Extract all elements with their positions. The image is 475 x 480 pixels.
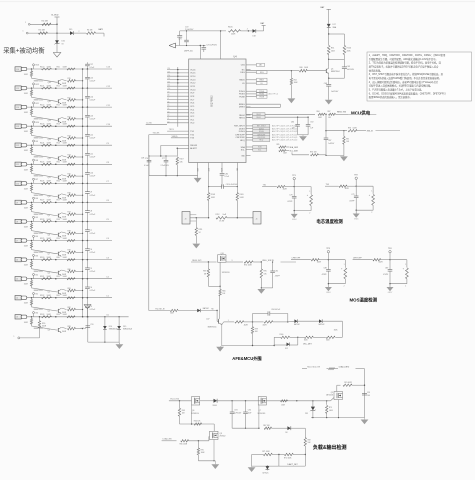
svg-text:B4: B4 bbox=[36, 236, 38, 238]
pin stub BAT bbox=[220, 31, 222, 59]
node B- bbox=[20, 337, 40, 339]
svg-text:TP1: TP1 bbox=[292, 175, 295, 177]
diode ZD3 bbox=[267, 466, 268, 467]
net CB1 bbox=[251, 64, 257, 66]
resistor R105 bbox=[229, 30, 241, 33]
wire ground bus bbox=[311, 417, 365, 419]
svg-text:J4: J4 bbox=[256, 219, 258, 221]
svg-text:MCU_VDD_7W: MCU_VDD_7W bbox=[307, 367, 320, 369]
capacitor C74 bbox=[203, 46, 205, 48]
resistor R81 bbox=[62, 289, 67, 290]
transistor Q16 SI2301 bbox=[218, 255, 227, 262]
svg-text:CFETOFF: CFETOFF bbox=[236, 137, 246, 139]
junction bbox=[55, 183, 57, 185]
svg-text:C74 1uF/50V: C74 1uF/50V bbox=[206, 44, 217, 46]
svg-text:C92: C92 bbox=[310, 122, 313, 124]
resistor R99 bbox=[252, 322, 254, 327]
svg-text:C6: C6 bbox=[90, 249, 92, 251]
junction bbox=[56, 24, 58, 26]
svg-text:1: 1 bbox=[228, 320, 229, 322]
node BAT1 bbox=[96, 32, 105, 34]
wire ground bus bbox=[149, 175, 198, 177]
svg-text:R56: R56 bbox=[57, 181, 60, 183]
resistor R71 bbox=[263, 453, 272, 455]
net DDSG bbox=[251, 128, 253, 130]
resistor R67 bbox=[264, 427, 271, 429]
svg-text:0.22uF: 0.22uF bbox=[90, 252, 96, 254]
svg-text:R50: R50 bbox=[57, 66, 60, 68]
capacitor C78 bbox=[293, 187, 295, 197]
transistor Q6 SI2301 bbox=[192, 397, 200, 405]
resistor R124 bbox=[42, 144, 52, 146]
svg-text:Q9: Q9 bbox=[48, 215, 50, 217]
svg-text:C81 0.47uF/50V: C81 0.47uF/50V bbox=[226, 184, 239, 186]
svg-text:Q6: Q6 bbox=[192, 410, 194, 412]
svg-text:B11: B11 bbox=[36, 103, 39, 105]
svg-text:R59: R59 bbox=[42, 323, 45, 325]
svg-text:C86: C86 bbox=[291, 122, 294, 124]
connector J4 bbox=[253, 212, 261, 225]
svg-text:BZT52C: BZT52C bbox=[263, 473, 270, 475]
svg-text:0.22uF: 0.22uF bbox=[90, 271, 96, 273]
wire bbox=[112, 316, 129, 318]
svg-text:Q11: Q11 bbox=[48, 177, 51, 179]
connector J15 bbox=[15, 86, 21, 90]
node B3 bbox=[33, 254, 35, 256]
wire bbox=[190, 217, 209, 219]
resistor R52 bbox=[67, 106, 75, 108]
pin VC8 bbox=[167, 95, 189, 97]
svg-text:C82: C82 bbox=[275, 270, 278, 272]
resistor R74 bbox=[62, 156, 67, 157]
wire row bbox=[252, 454, 264, 456]
svg-text:0.22uF: 0.22uF bbox=[90, 80, 96, 82]
resistor R76 bbox=[62, 194, 67, 195]
junction bbox=[55, 125, 57, 127]
net HDQ bbox=[251, 139, 253, 141]
svg-text:R84: R84 bbox=[317, 111, 320, 113]
wire bbox=[32, 324, 58, 330]
svg-text:R61: R61 bbox=[57, 276, 60, 278]
wire bbox=[76, 309, 83, 311]
svg-text:J15: J15 bbox=[16, 88, 19, 90]
svg-text:470PF: 470PF bbox=[349, 201, 354, 203]
svg-text:R133: R133 bbox=[40, 314, 44, 316]
wire bbox=[74, 32, 87, 34]
svg-text:PACK: PACK bbox=[239, 79, 245, 82]
svg-text:VC13: VC13 bbox=[190, 79, 196, 81]
svg-text:R112: R112 bbox=[216, 214, 220, 216]
pin SRN bbox=[221, 163, 223, 174]
svg-text:100R: 100R bbox=[47, 85, 52, 87]
node B6 bbox=[33, 197, 35, 199]
wire bbox=[76, 290, 83, 292]
svg-text:Q8: Q8 bbox=[220, 433, 222, 435]
junction bbox=[82, 297, 84, 299]
svg-text:R105: R105 bbox=[228, 27, 233, 29]
svg-text:R120: R120 bbox=[40, 66, 44, 68]
svg-text:Q12: Q12 bbox=[48, 158, 51, 160]
resistor R96 bbox=[170, 309, 178, 311]
resistor R95 bbox=[260, 262, 262, 269]
connector J3 bbox=[15, 315, 21, 319]
wire bbox=[28, 32, 70, 34]
wire bbox=[326, 130, 347, 132]
wire bbox=[198, 460, 215, 462]
svg-text:1: 1 bbox=[371, 190, 372, 192]
notes box bbox=[367, 52, 472, 101]
net DFETOFF bbox=[251, 134, 253, 136]
svg-text:GND7: GND7 bbox=[388, 292, 393, 294]
svg-text:B13: B13 bbox=[36, 65, 39, 67]
svg-text:R83: R83 bbox=[68, 326, 71, 328]
resistor R129 bbox=[31, 183, 33, 185]
resistor R78 bbox=[62, 232, 67, 233]
resistor R80 bbox=[62, 270, 67, 271]
wire bbox=[76, 328, 83, 330]
capacitor C79 bbox=[355, 186, 357, 196]
resistor R123 bbox=[31, 298, 33, 300]
svg-text:D15: D15 bbox=[123, 326, 126, 328]
junction bbox=[82, 278, 84, 280]
svg-text:DFETOFF: DFETOFF bbox=[236, 134, 246, 136]
svg-text:J10: J10 bbox=[16, 183, 19, 185]
capacitor C15 bbox=[86, 88, 88, 96]
wire bbox=[337, 384, 341, 386]
wire bbox=[32, 305, 58, 311]
svg-text:R72 300K: R72 300K bbox=[284, 457, 292, 459]
svg-text:R62: R62 bbox=[57, 295, 60, 297]
resistor R59 bbox=[39, 317, 41, 321]
resistor R57 bbox=[67, 201, 75, 203]
pin VSS bbox=[197, 163, 199, 176]
svg-text:R71 100K: R71 100K bbox=[262, 451, 270, 453]
capacitor C89 bbox=[389, 260, 391, 270]
svg-text:2: 2 bbox=[344, 286, 345, 288]
ground bbox=[84, 305, 91, 309]
svg-text:C95: C95 bbox=[367, 392, 370, 394]
svg-text:DDSG: DDSG bbox=[239, 128, 245, 130]
svg-text:R63: R63 bbox=[182, 410, 185, 412]
svg-text:R75: R75 bbox=[329, 407, 332, 409]
junction bbox=[55, 297, 57, 299]
resistor R53 bbox=[67, 125, 75, 127]
pin TS3 bbox=[171, 137, 189, 139]
svg-text:C8: C8 bbox=[167, 95, 169, 97]
ground bbox=[257, 289, 265, 294]
net CFETOFF bbox=[251, 136, 253, 138]
svg-text:R100: R100 bbox=[280, 334, 284, 336]
node B2 bbox=[33, 274, 35, 276]
svg-text:R69: R69 bbox=[308, 439, 311, 441]
junction bbox=[55, 259, 57, 261]
svg-text:100R: 100R bbox=[47, 219, 52, 221]
wire bbox=[27, 144, 112, 146]
svg-text:R64 10K: R64 10K bbox=[194, 421, 201, 423]
svg-text:0.22uF: 0.22uF bbox=[90, 157, 96, 159]
svg-text:MMBT5551: MMBT5551 bbox=[34, 176, 43, 178]
junction bbox=[31, 125, 33, 127]
svg-text:C78: C78 bbox=[289, 195, 292, 197]
svg-text:C93: C93 bbox=[234, 409, 237, 411]
svg-text:100R: 100R bbox=[63, 314, 68, 316]
svg-text:REG1 3V3: REG1 3V3 bbox=[192, 260, 201, 262]
svg-text:470PF: 470PF bbox=[275, 275, 280, 277]
svg-text:REG18: REG18 bbox=[190, 145, 197, 147]
node B10 bbox=[33, 121, 35, 123]
wire bbox=[76, 251, 83, 253]
svg-text:R124: R124 bbox=[40, 143, 44, 145]
resistor R128 bbox=[42, 220, 52, 222]
wire DREG bbox=[246, 106, 280, 108]
resistor R92 bbox=[291, 152, 293, 154]
svg-text:TS1/3: TS1/3 bbox=[169, 129, 174, 131]
junction bbox=[55, 316, 57, 318]
svg-text:C7: C7 bbox=[167, 98, 169, 100]
svg-text:R131: R131 bbox=[40, 276, 44, 278]
junction bbox=[31, 106, 33, 108]
svg-text:REG1 3V3: REG1 3V3 bbox=[337, 111, 346, 113]
svg-text:100R: 100R bbox=[47, 104, 52, 106]
svg-text:1: 1 bbox=[344, 264, 345, 266]
svg-text:Q6: Q6 bbox=[48, 272, 50, 274]
svg-text:C77: C77 bbox=[162, 158, 165, 160]
resistor R93 bbox=[207, 262, 209, 269]
svg-text:C4: C4 bbox=[167, 108, 169, 110]
svg-text:100R: 100R bbox=[63, 200, 68, 202]
capacitor C7 bbox=[86, 241, 88, 249]
svg-text:0.22uF: 0.22uF bbox=[90, 290, 96, 292]
resistor R62 bbox=[67, 297, 75, 299]
capacitor C11 bbox=[86, 164, 88, 172]
op-amp U4 BQ76952 bbox=[189, 59, 246, 163]
svg-text:R95: R95 bbox=[264, 271, 267, 273]
capacitor C92 bbox=[307, 117, 309, 124]
wire emitter bbox=[329, 77, 345, 79]
svg-text:C73: C73 bbox=[178, 39, 181, 41]
svg-text:J9: J9 bbox=[16, 202, 18, 204]
diode D12 bbox=[274, 344, 286, 346]
wire bbox=[32, 134, 58, 140]
pin TS2 bbox=[149, 134, 189, 136]
resistor R85 100R bbox=[279, 146, 286, 148]
svg-text:R82: R82 bbox=[68, 307, 71, 309]
svg-text:Q9: Q9 bbox=[331, 392, 333, 394]
svg-text:R4 10R: R4 10R bbox=[42, 21, 49, 23]
junction bbox=[31, 240, 33, 242]
capacitor C95 bbox=[362, 392, 367, 394]
svg-text:MMBT5551: MMBT5551 bbox=[34, 214, 43, 216]
resistor R112 2mR shunt bbox=[216, 217, 227, 220]
net PACK bbox=[251, 79, 257, 81]
resistor R100 bbox=[281, 336, 290, 338]
wire bbox=[27, 106, 112, 108]
svg-text:MMBT5551: MMBT5551 bbox=[34, 100, 43, 102]
resistor R90 bbox=[348, 130, 357, 132]
resistor R64 bbox=[194, 423, 201, 425]
svg-text:B10: B10 bbox=[36, 122, 39, 124]
ground bbox=[389, 284, 391, 287]
svg-text:REG1: REG1 bbox=[239, 118, 245, 120]
svg-text:100R: 100R bbox=[47, 143, 52, 145]
svg-text:R62: R62 bbox=[294, 79, 297, 81]
resistor R132 bbox=[42, 297, 52, 299]
svg-text:Q17: Q17 bbox=[206, 319, 209, 321]
svg-text:100R: 100R bbox=[47, 200, 52, 202]
zener ZD2 bbox=[312, 401, 314, 407]
node B7 bbox=[33, 178, 35, 180]
svg-text:C15: C15 bbox=[90, 77, 93, 79]
junction bbox=[82, 144, 84, 146]
svg-text:MMBT5551: MMBT5551 bbox=[34, 157, 43, 159]
svg-text:TS1: TS1 bbox=[263, 184, 266, 186]
svg-text:C9: C9 bbox=[167, 91, 169, 93]
net SCL bbox=[251, 149, 253, 151]
capacitor C86 bbox=[297, 117, 299, 124]
connector J11 bbox=[15, 162, 21, 166]
svg-text:0.1uF: 0.1uF bbox=[225, 176, 229, 178]
connector J10 bbox=[15, 181, 21, 185]
connector J7 bbox=[15, 238, 21, 242]
net TS3 bbox=[325, 185, 339, 187]
resistor R133 bbox=[42, 316, 52, 318]
ground bbox=[288, 98, 296, 103]
capacitor C87 bbox=[325, 131, 327, 138]
svg-text:TS2_NK: TS2_NK bbox=[153, 133, 161, 135]
svg-text:R125: R125 bbox=[40, 162, 44, 164]
svg-text:104: 104 bbox=[367, 395, 370, 397]
resistor R76A bbox=[281, 400, 288, 402]
wire bbox=[76, 137, 83, 139]
svg-text:R107: R107 bbox=[180, 159, 184, 161]
svg-text:1: 1 bbox=[25, 22, 26, 24]
svg-text:C15: C15 bbox=[167, 71, 170, 73]
resistor R107 bbox=[176, 148, 178, 157]
svg-text:R129: R129 bbox=[40, 238, 44, 240]
svg-text:C13: C13 bbox=[167, 78, 170, 80]
svg-text:B5: B5 bbox=[36, 217, 38, 219]
svg-text:R71: R71 bbox=[68, 97, 71, 99]
wire bbox=[381, 259, 390, 261]
svg-text:100R: 100R bbox=[63, 124, 68, 126]
svg-text:0.22uF: 0.22uF bbox=[90, 138, 96, 140]
svg-text:SCL: SCL bbox=[258, 149, 261, 151]
resistor R71 bbox=[62, 99, 67, 100]
resistor R66 bbox=[219, 289, 221, 295]
svg-text:100R: 100R bbox=[47, 66, 52, 68]
net LD bbox=[251, 82, 257, 84]
svg-text:采集+被动均衡: 采集+被动均衡 bbox=[3, 46, 45, 55]
svg-text:VC10: VC10 bbox=[190, 89, 196, 91]
svg-text:LOAD_EN: LOAD_EN bbox=[163, 437, 172, 440]
resistor R75 bbox=[62, 175, 67, 176]
resistor R111 bbox=[195, 218, 197, 228]
resistor R83 bbox=[62, 327, 67, 328]
resistor R121 bbox=[42, 87, 52, 89]
resistor R58 bbox=[67, 220, 75, 222]
resistor R135 bbox=[31, 69, 33, 71]
svg-text:R67 10K: R67 10K bbox=[263, 425, 270, 427]
svg-text:C63: C63 bbox=[347, 66, 350, 68]
node B5 bbox=[33, 216, 35, 218]
resistor R61 bbox=[327, 46, 330, 55]
pin VC5 bbox=[167, 105, 189, 107]
resistor R82 bbox=[62, 308, 67, 309]
capacitor C8 bbox=[86, 222, 88, 230]
zener D16 bbox=[55, 40, 59, 44]
svg-text:J3: J3 bbox=[16, 317, 18, 319]
svg-text:R58: R58 bbox=[57, 219, 60, 221]
diode D10 BAT54C bbox=[288, 320, 295, 323]
svg-text:TP4: TP4 bbox=[388, 248, 391, 250]
capacitor C6 bbox=[86, 260, 88, 268]
resistor R108 bbox=[208, 163, 210, 193]
wire bbox=[76, 156, 83, 158]
svg-text:0.22uF: 0.22uF bbox=[90, 233, 96, 235]
svg-text:R51: R51 bbox=[57, 85, 60, 87]
svg-text:100R: 100R bbox=[63, 257, 68, 259]
svg-text:1: 1 bbox=[23, 31, 24, 33]
wire bbox=[298, 320, 319, 322]
resistor TS1 series bbox=[277, 185, 285, 187]
pin ALERT bbox=[177, 147, 188, 149]
svg-text:SI2301DS: SI2301DS bbox=[222, 272, 231, 274]
svg-text:BAT1: BAT1 bbox=[99, 28, 104, 31]
junction bbox=[244, 321, 253, 323]
capacitor C19 bbox=[86, 325, 91, 327]
wire bbox=[291, 427, 306, 429]
capacitor C80 bbox=[220, 172, 225, 174]
svg-text:R77: R77 bbox=[68, 212, 71, 214]
svg-text:R80: R80 bbox=[68, 269, 71, 271]
resistor R84 bbox=[318, 113, 325, 115]
wire bbox=[32, 96, 58, 102]
wire bbox=[251, 455, 253, 467]
resistor R122 bbox=[31, 317, 33, 319]
pin VC10 bbox=[167, 89, 189, 91]
svg-text:MMBT5551: MMBT5551 bbox=[34, 290, 43, 292]
svg-text:J11: J11 bbox=[16, 164, 19, 166]
svg-text:D12: D12 bbox=[285, 348, 288, 350]
capacitor C17 bbox=[86, 62, 88, 64]
svg-text:SS34: SS34 bbox=[213, 405, 217, 407]
resistor R122 bbox=[42, 106, 52, 108]
net RST_SHUT bbox=[251, 125, 253, 127]
net REG1 bbox=[253, 116, 266, 119]
resistor R103 bbox=[329, 368, 335, 370]
junction bbox=[325, 114, 326, 115]
node B4 bbox=[33, 235, 35, 237]
wire gate bbox=[219, 262, 221, 286]
svg-text:B9: B9 bbox=[36, 141, 38, 143]
svg-text:R92 10K: R92 10K bbox=[310, 152, 317, 154]
svg-text:R132: R132 bbox=[40, 295, 44, 297]
svg-text:SDA: SDA bbox=[241, 146, 246, 149]
svg-text:AFE&MCU外围: AFE&MCU外围 bbox=[232, 355, 261, 362]
wire bbox=[261, 287, 272, 289]
resistor R60 bbox=[299, 69, 307, 72]
svg-text:HDQ: HDQ bbox=[240, 140, 245, 142]
resistor R130 bbox=[42, 259, 52, 261]
resistor R126 bbox=[31, 241, 33, 243]
svg-text:100R: 100R bbox=[47, 314, 52, 316]
svg-text:VDL_DET: VDL_DET bbox=[303, 343, 312, 345]
pin VC13 bbox=[167, 79, 189, 81]
svg-text:B1: B1 bbox=[36, 293, 38, 295]
svg-text:D16: D16 bbox=[62, 41, 65, 43]
svg-text:C8: C8 bbox=[90, 211, 92, 213]
capacitor C9 bbox=[86, 202, 88, 210]
